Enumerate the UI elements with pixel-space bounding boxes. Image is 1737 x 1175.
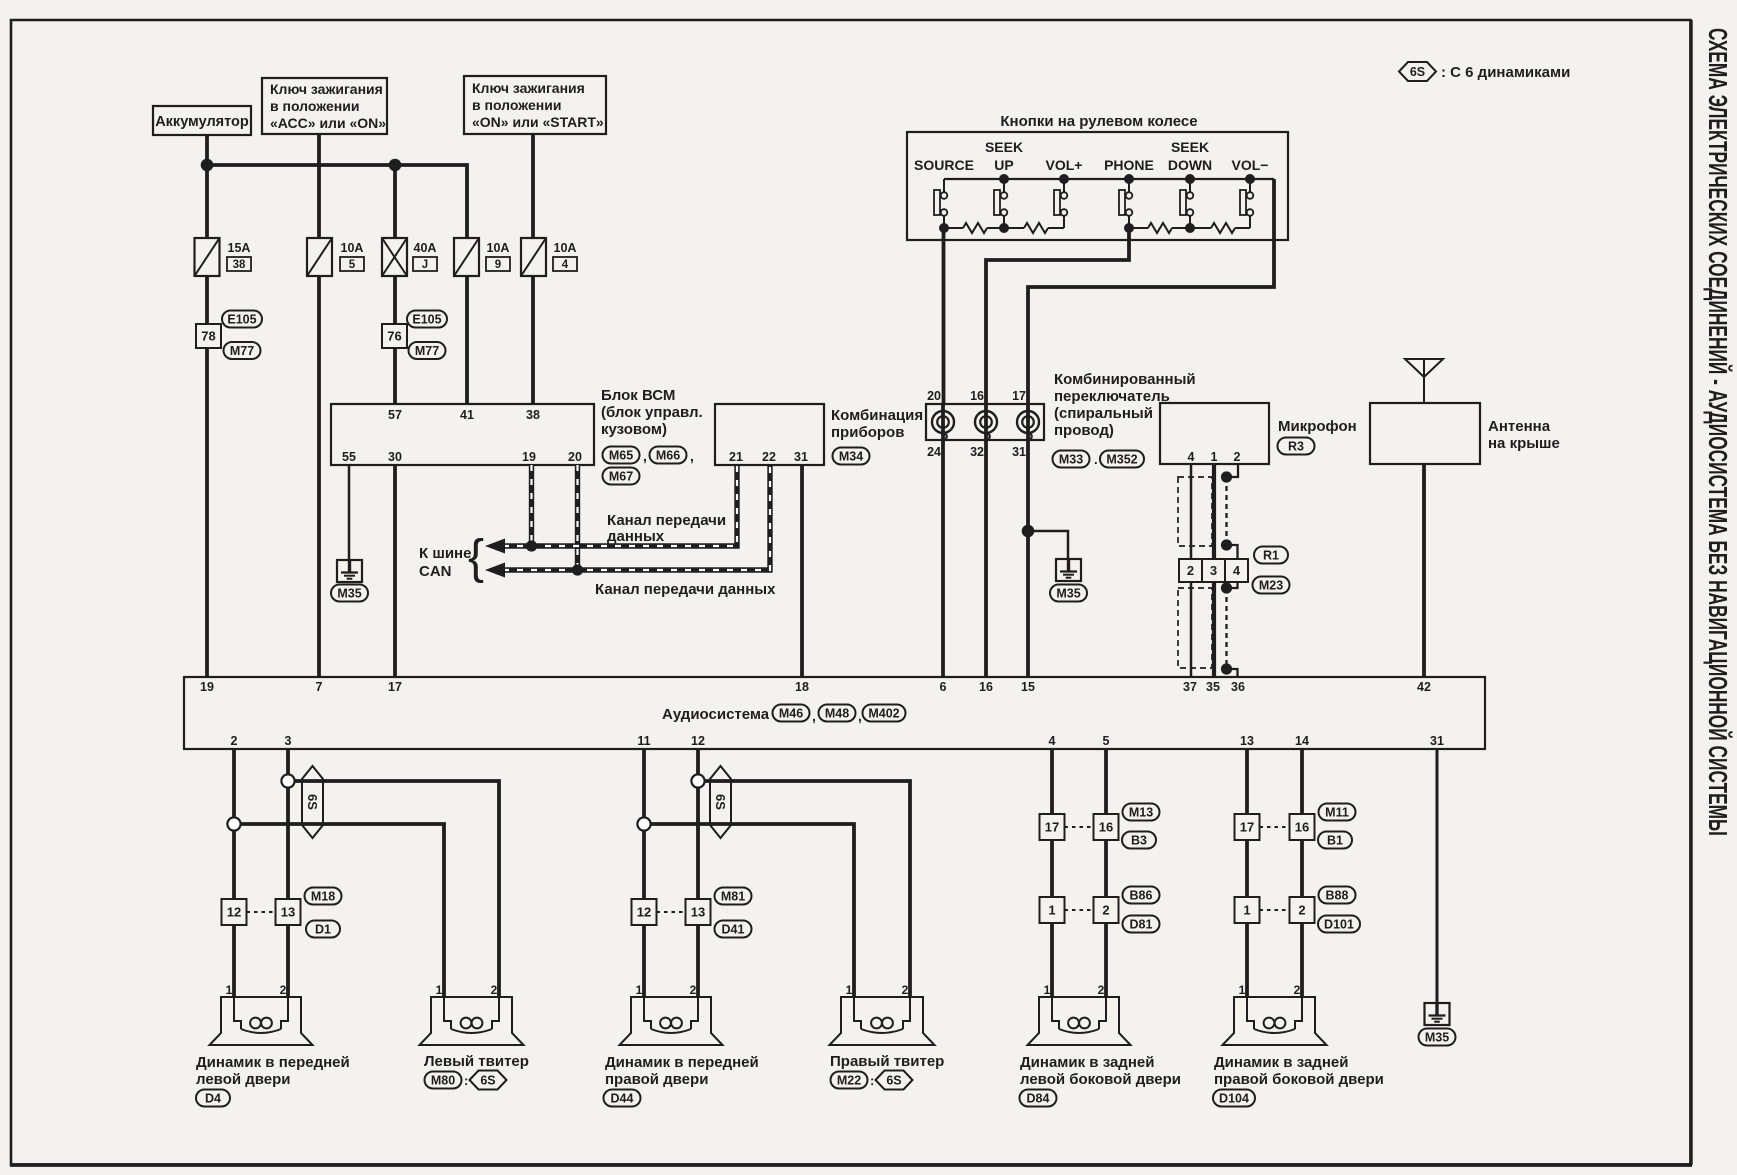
fuse 10A/9: [454, 238, 479, 276]
svg-text:M352: M352: [1106, 453, 1137, 467]
svg-text:4: 4: [562, 259, 569, 271]
svg-text:2: 2: [231, 734, 238, 748]
ignition key ACC/ON box: [262, 78, 387, 134]
svg-text:55: 55: [342, 450, 356, 464]
svg-text:5: 5: [1103, 734, 1110, 748]
bus dot PHONE: [1124, 174, 1134, 184]
svg-text:M13: M13: [1129, 806, 1153, 820]
svg-text:M34: M34: [839, 450, 863, 464]
wire F2 to audio pin 7: [317, 276, 321, 677]
wire audio pin 12 down: [696, 749, 700, 997]
connector label B1: [1318, 832, 1352, 849]
spiral symbol pin 20: [932, 411, 954, 433]
switch SEEK DOWN: [1180, 190, 1186, 215]
svg-text:Динамик в задней: Динамик в задней: [1020, 1054, 1154, 1071]
svg-text:1: 1: [1048, 903, 1055, 918]
svg-text:Антенна: Антенна: [1488, 418, 1551, 435]
svg-text:(блок управл.: (блок управл.: [601, 404, 703, 421]
svg-text:,: ,: [858, 708, 862, 724]
svg-text:19: 19: [522, 450, 536, 464]
svg-text:Аудиосистема: Аудиосистема: [662, 706, 770, 723]
svg-text:Динамик в передней: Динамик в передней: [196, 1054, 350, 1071]
svg-text:42: 42: [1417, 680, 1431, 694]
BCM label M67: [603, 468, 640, 485]
connector B88/D101: [1235, 897, 1260, 923]
svg-text:провод): провод): [1054, 422, 1114, 439]
svg-text:M23: M23: [1259, 579, 1283, 593]
instrument cluster label M34: [833, 448, 870, 465]
wire ON/START key down: [531, 134, 535, 238]
wire audio pin 3 down: [286, 749, 290, 997]
ground M35 right: [1425, 1003, 1450, 1025]
wire F5 to BCM pin 38: [531, 276, 535, 404]
svg-text:B86: B86: [1130, 889, 1153, 903]
connector 76 label M77: [409, 342, 446, 359]
svg-text:13: 13: [281, 905, 295, 920]
wire spiral pin 24 to audio pin 6: [941, 404, 945, 677]
right tweeter: [830, 997, 935, 1045]
svg-text:B88: B88: [1326, 889, 1349, 903]
svg-text:Комбинированный: Комбинированный: [1054, 371, 1196, 388]
svg-text:2: 2: [1102, 903, 1109, 918]
svg-text:DOWN: DOWN: [1168, 157, 1212, 173]
fusible link 40A/J: [382, 238, 407, 276]
svg-text:17: 17: [388, 680, 402, 694]
connector label M18: [305, 888, 342, 905]
svg-text:14: 14: [1295, 734, 1309, 748]
ignition key ON/START box: [464, 76, 606, 134]
svg-text:1: 1: [1239, 983, 1246, 997]
wire PHONE to spiral pin 16: [986, 228, 1129, 404]
svg-text:1: 1: [1211, 450, 1218, 464]
switch VOL-: [1240, 190, 1246, 215]
svg-text:38: 38: [526, 408, 540, 422]
wire BCM pin 19 drop: [529, 465, 534, 546]
svg-text:«ON» или «START»: «ON» или «START»: [472, 114, 604, 130]
svg-text:78: 78: [201, 329, 215, 344]
wire audio pin 13 down: [1245, 749, 1249, 997]
junction ring pin 2: [227, 817, 240, 830]
wire to ground M35 middle: [1028, 531, 1068, 559]
svg-text:,: ,: [812, 708, 816, 724]
wire BCM pin 20 drop: [575, 465, 580, 570]
switch top bus: [944, 178, 1274, 180]
connector label M81: [715, 888, 752, 905]
svg-text:Кнопки на рулевом колесе: Кнопки на рулевом колесе: [1000, 113, 1197, 130]
junction drain top: [1221, 471, 1232, 482]
spiral cable box: [926, 404, 1044, 440]
svg-text:6S: 6S: [886, 1074, 901, 1088]
svg-text:D4: D4: [205, 1092, 221, 1106]
svg-text:CAN: CAN: [419, 563, 452, 580]
connector M18/D1: [222, 899, 247, 925]
svg-text:31: 31: [1430, 734, 1444, 748]
svg-text:кузовом): кузовом): [601, 421, 667, 438]
svg-text:E105: E105: [412, 313, 441, 327]
svg-text:Блок ВСМ: Блок ВСМ: [601, 387, 675, 404]
junction CAN upper: [526, 540, 537, 551]
svg-text:35: 35: [1206, 680, 1220, 694]
svg-text:6S: 6S: [480, 1074, 495, 1088]
svg-text:16: 16: [1295, 820, 1309, 835]
wire branch to left tweeter pin 1: [234, 824, 444, 997]
svg-text:10A: 10A: [554, 241, 577, 255]
front right speaker label D44: [604, 1090, 641, 1107]
wire audio pin 31 to ground: [1436, 749, 1439, 1003]
svg-text:15A: 15A: [228, 241, 251, 255]
switch SEEK UP: [994, 190, 1000, 215]
wire F1 to connector 78: [205, 276, 209, 324]
spiral label M33: [1053, 451, 1090, 468]
junction drain below connector: [1221, 582, 1232, 593]
audio label M402: [863, 705, 906, 722]
wire drain into connector R1: [1227, 545, 1238, 559]
svg-text:Ключ зажигания: Ключ зажигания: [472, 80, 585, 96]
wire mic pin 1 to audio pin 35: [1212, 464, 1216, 677]
junction drain above connector: [1221, 539, 1232, 550]
instrument cluster box: [715, 404, 824, 465]
wire spiral pin 32 to audio pin 16: [984, 404, 988, 677]
bus dot SEEK UP: [999, 174, 1009, 184]
svg-text:12: 12: [691, 734, 705, 748]
front left speaker label D4: [196, 1090, 230, 1107]
svg-text:Правый твитер: Правый твитер: [830, 1053, 944, 1070]
junction spiral ground: [1022, 525, 1035, 538]
svg-text:M11: M11: [1325, 806, 1349, 820]
left tweeter label 6S: [470, 1071, 507, 1090]
svg-text:(спиральный: (спиральный: [1054, 405, 1153, 422]
bus dot VOL+: [1059, 174, 1069, 184]
audio label M46: [773, 705, 810, 722]
svg-text:6S: 6S: [1410, 65, 1425, 79]
switch SOURCE: [934, 190, 940, 215]
svg-text:41: 41: [460, 408, 474, 422]
svg-text:E105: E105: [227, 313, 256, 327]
connector R1/M23 box 3: [1202, 559, 1225, 582]
svg-text:Динамик в передней: Динамик в передней: [605, 1054, 759, 1071]
wire cluster pin 31 to audio pin 18: [800, 465, 804, 677]
ground M35 middle: [1056, 559, 1081, 581]
svg-text:B3: B3: [1131, 834, 1147, 848]
svg-text:20: 20: [568, 450, 582, 464]
svg-text:Микрофон: Микрофон: [1278, 418, 1357, 435]
svg-text:4: 4: [1049, 734, 1056, 748]
spiral label M352: [1100, 451, 1144, 468]
BCM box: [331, 404, 594, 465]
bus dot SEEK DOWN: [1185, 174, 1195, 184]
svg-text:2: 2: [690, 983, 697, 997]
svg-text:«АСС» или «ON»: «АСС» или «ON»: [270, 115, 386, 131]
svg-text:M35: M35: [1425, 1031, 1449, 1045]
connector 76: [382, 324, 407, 348]
wire battery to fuse F1: [205, 135, 209, 238]
chain dot SOURCE: [939, 223, 949, 233]
svg-text:2: 2: [280, 983, 287, 997]
wire drain to audio pin 36: [1227, 669, 1238, 677]
connector 78 label E105: [222, 311, 262, 328]
svg-text:M48: M48: [825, 707, 849, 721]
svg-text:: С 6 динамиками: : С 6 динамиками: [1441, 64, 1570, 81]
wire audio pin 5 down: [1104, 749, 1108, 997]
mic drain wire upper: [1225, 477, 1227, 545]
svg-text::: :: [870, 1073, 874, 1088]
microphone box: [1160, 403, 1269, 464]
svg-text:76: 76: [387, 329, 401, 344]
svg-text:2: 2: [1234, 450, 1241, 464]
svg-text:B1: B1: [1327, 834, 1343, 848]
svg-text:VOL+: VOL+: [1046, 157, 1083, 173]
connector M81/D41: [632, 899, 657, 925]
svg-text:15: 15: [1021, 680, 1035, 694]
svg-text:M66: M66: [656, 449, 680, 463]
CAN data line upper: [503, 465, 737, 546]
connector label B86: [1123, 887, 1160, 904]
svg-text:M46: M46: [779, 707, 803, 721]
svg-text::: :: [464, 1073, 468, 1088]
rear right speaker label D104: [1213, 1090, 1255, 1107]
svg-text:Ключ зажигания: Ключ зажигания: [270, 81, 383, 97]
svg-text:D84: D84: [1027, 1092, 1050, 1106]
wire 40A branch down: [393, 165, 397, 238]
junction drain bottom: [1221, 663, 1232, 674]
svg-text:M77: M77: [415, 344, 439, 358]
svg-text:SEEK: SEEK: [1171, 139, 1209, 155]
audio label M48: [819, 705, 856, 722]
svg-text:20: 20: [927, 389, 941, 403]
svg-text:13: 13: [691, 905, 705, 920]
ground M35 left: [337, 560, 362, 582]
svg-text:2: 2: [1187, 563, 1194, 578]
svg-text:17: 17: [1045, 820, 1059, 835]
svg-text:57: 57: [388, 408, 402, 422]
svg-text:правой боковой двери: правой боковой двери: [1214, 1071, 1384, 1088]
svg-text:40A: 40A: [414, 241, 437, 255]
fuse 10A/4: [521, 238, 546, 276]
wire audio pin 11 down: [642, 749, 646, 997]
svg-text:6S: 6S: [713, 794, 728, 810]
fuse 10A/5: [307, 238, 332, 276]
svg-text:M18: M18: [311, 890, 335, 904]
svg-text:переключатель: переключатель: [1054, 388, 1170, 405]
rear left door speaker: [1028, 997, 1131, 1045]
svg-text:13: 13: [1240, 734, 1254, 748]
microphone label R3: [1278, 438, 1315, 455]
svg-text:31: 31: [794, 450, 808, 464]
svg-text:приборов: приборов: [831, 424, 904, 441]
wire bus to spiral pin 17: [1028, 179, 1274, 404]
chain dot SEEK DOWN: [1185, 223, 1195, 233]
svg-text:VOL−: VOL−: [1232, 157, 1269, 173]
svg-text:Аккумулятор: Аккумулятор: [155, 114, 249, 130]
chain dot SEEK UP: [999, 223, 1009, 233]
svg-text:M65: M65: [609, 449, 633, 463]
connector label D101: [1318, 916, 1360, 933]
ground label M35 left: [331, 585, 368, 602]
svg-text:SOURCE: SOURCE: [914, 157, 974, 173]
svg-text:R3: R3: [1288, 440, 1304, 454]
6S marker front right: [710, 766, 731, 838]
right tweeter label 6S: [876, 1071, 913, 1090]
svg-text:21: 21: [729, 450, 743, 464]
svg-text:Комбинация: Комбинация: [831, 407, 923, 424]
connector 76 label E105: [407, 311, 447, 328]
connector label M13: [1123, 804, 1160, 821]
svg-text:левой двери: левой двери: [196, 1071, 291, 1088]
wire branch to right tweeter pin 1: [644, 824, 854, 997]
CAN data line lower: [503, 465, 770, 570]
svg-text:D104: D104: [1219, 1092, 1249, 1106]
CAN arrow upper: [485, 539, 505, 554]
svg-text:10A: 10A: [487, 241, 510, 255]
svg-text:16: 16: [979, 680, 993, 694]
svg-text:.: .: [1094, 452, 1098, 467]
svg-text:1: 1: [636, 983, 643, 997]
spiral symbol pin 16: [975, 411, 997, 433]
wire connector 78 to audio pin 19: [205, 348, 209, 677]
svg-text:37: 37: [1183, 680, 1197, 694]
svg-text:Левый твитер: Левый твитер: [424, 1053, 529, 1070]
svg-text:M77: M77: [230, 344, 254, 358]
svg-text:в положении: в положении: [270, 98, 359, 114]
ground label M35 middle: [1050, 585, 1087, 602]
connector R1/M23 box 4: [1225, 559, 1248, 582]
wire branch to right tweeter pin 2: [698, 781, 910, 997]
svg-text:R1: R1: [1263, 549, 1279, 563]
connector R1/M23 box 2: [1179, 559, 1202, 582]
steering buttons box: [907, 132, 1288, 240]
svg-text:1: 1: [1243, 903, 1250, 918]
svg-text:,: ,: [690, 448, 694, 464]
svg-text:12: 12: [637, 905, 651, 920]
wire F4 to BCM pin 41: [465, 276, 469, 404]
BCM label M65: [603, 447, 640, 464]
svg-text:4: 4: [1188, 450, 1195, 464]
svg-text:6: 6: [940, 680, 947, 694]
wire antenna to audio pin 42: [1422, 464, 1426, 677]
svg-text:16: 16: [970, 389, 984, 403]
connector M11/B1: [1235, 814, 1260, 840]
svg-text:PHONE: PHONE: [1104, 157, 1154, 173]
wire SOURCE to spiral pin 20: [942, 228, 946, 404]
svg-text:M80: M80: [431, 1074, 455, 1088]
svg-text:M35: M35: [337, 587, 361, 601]
wire BCM pin 30 to audio pin 17: [393, 465, 397, 677]
svg-text:2: 2: [491, 983, 498, 997]
rear right door speaker: [1223, 997, 1327, 1045]
svg-text:24: 24: [927, 445, 941, 459]
wire branch to left tweeter pin 2: [288, 781, 499, 997]
svg-text:2: 2: [1298, 903, 1305, 918]
svg-text:в положении: в положении: [472, 97, 561, 113]
svg-text:D41: D41: [722, 923, 745, 937]
svg-text:СХЕМА ЭЛЕКТРИЧЕСКИХ СОЕДИНЕНИЙ: СХЕМА ЭЛЕКТРИЧЕСКИХ СОЕДИНЕНИЙ - АУДИОСИ…: [1703, 28, 1733, 836]
svg-text:2: 2: [1098, 983, 1105, 997]
wire BCM pin 55 to ground: [348, 465, 351, 560]
power bus: [207, 165, 467, 238]
svg-text:на крыше: на крыше: [1488, 435, 1560, 452]
left tweeter label M80: [425, 1072, 462, 1089]
svg-text:M81: M81: [721, 890, 745, 904]
connector B86/D81: [1040, 897, 1065, 923]
svg-text:36: 36: [1231, 680, 1245, 694]
bus dot VOL-: [1245, 174, 1255, 184]
battery box: [153, 106, 251, 135]
svg-text:D44: D44: [611, 1092, 634, 1106]
svg-text:M22: M22: [837, 1074, 861, 1088]
svg-text:3: 3: [285, 734, 292, 748]
svg-text:18: 18: [795, 680, 809, 694]
svg-text:4: 4: [1233, 563, 1241, 578]
wire mic pin 4 to audio pin 37: [1190, 464, 1193, 677]
chain dot PHONE: [1124, 223, 1134, 233]
wire connector 76 to BCM pin 57: [393, 348, 397, 404]
svg-text:M33: M33: [1059, 453, 1083, 467]
svg-text:J: J: [422, 259, 428, 271]
junction ring pin 3: [281, 774, 294, 787]
svg-text:16: 16: [1099, 820, 1113, 835]
svg-text:D1: D1: [315, 923, 331, 937]
svg-text:,: ,: [643, 448, 647, 464]
svg-text:30: 30: [388, 450, 402, 464]
BCM label M66: [650, 447, 687, 464]
svg-text:данных: данных: [607, 528, 665, 545]
switch PHONE: [1119, 190, 1125, 215]
connector label M11: [1319, 804, 1356, 821]
svg-text:2: 2: [1294, 983, 1301, 997]
wire audio pin 14 down: [1300, 749, 1304, 997]
svg-text:7: 7: [316, 680, 323, 694]
wire spiral pin 31 to audio pin 15: [1026, 404, 1030, 677]
resistor chain left: [944, 227, 963, 229]
junction ring pin 12: [691, 774, 704, 787]
mic drain wire lower: [1225, 588, 1227, 669]
wire audio pin 4 down: [1050, 749, 1054, 997]
junction 40A branch: [389, 159, 402, 172]
6S marker front left: [302, 766, 323, 838]
rear left speaker label D84: [1020, 1090, 1057, 1107]
svg-text:1: 1: [1044, 983, 1051, 997]
svg-text:1: 1: [436, 983, 443, 997]
svg-text:38: 38: [233, 259, 246, 271]
front right door speaker: [620, 997, 723, 1045]
connector label D1: [306, 921, 340, 938]
connector label B3: [1122, 832, 1156, 849]
antenna box: [1370, 403, 1480, 464]
wire F3 to connector 76: [393, 276, 397, 324]
right tweeter label M22: [831, 1072, 868, 1089]
svg-text:19: 19: [200, 680, 214, 694]
front left door speaker: [210, 997, 313, 1045]
CAN arrow lower: [485, 563, 505, 578]
junction ring pin 11: [637, 817, 650, 830]
svg-text:31: 31: [1012, 445, 1026, 459]
svg-text:17: 17: [1240, 820, 1254, 835]
svg-text:17: 17: [1012, 389, 1026, 403]
svg-text:К шине: К шине: [419, 545, 471, 562]
resistor chain right: [1129, 227, 1148, 229]
svg-text:M67: M67: [609, 470, 633, 484]
svg-text:D101: D101: [1324, 918, 1354, 932]
svg-text:UP: UP: [994, 157, 1013, 173]
mic shield dashed box lower: [1178, 588, 1212, 668]
svg-text:1: 1: [846, 983, 853, 997]
connector label D41: [715, 921, 752, 938]
svg-text:11: 11: [637, 734, 650, 748]
wire ACC key down: [317, 134, 321, 238]
svg-text:12: 12: [227, 905, 241, 920]
spiral symbol pin 17: [1017, 411, 1039, 433]
svg-text:10A: 10A: [341, 241, 364, 255]
